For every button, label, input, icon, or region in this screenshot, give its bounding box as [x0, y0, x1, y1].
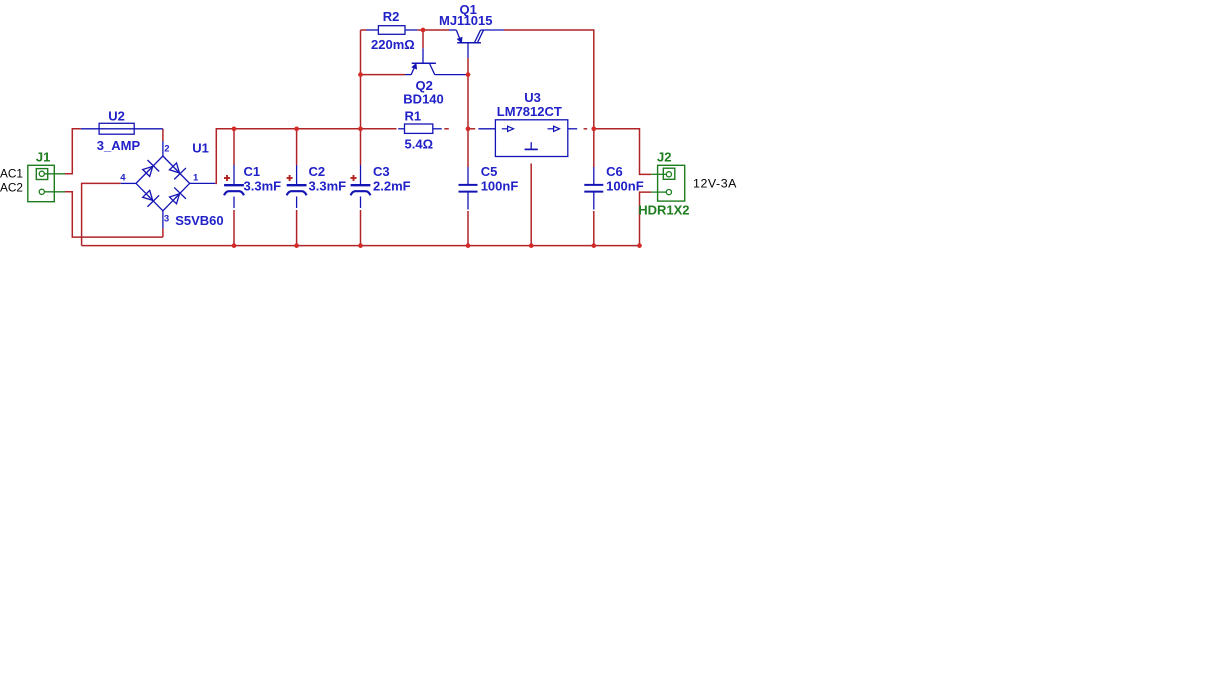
wire: mid rail C1 to R1 left pin: [234, 128, 397, 130]
svg-text:U2: U2: [108, 108, 125, 123]
label C5: [481, 164, 498, 179]
label Q2: [416, 78, 433, 93]
wire: top rail R2 right pin to Q1 emitter: [417, 29, 449, 31]
transistor Q2: [405, 48, 467, 75]
pin number 2 of U1: [164, 143, 169, 154]
svg-text:C6: C6: [606, 164, 623, 179]
svg-text:C2: C2: [309, 164, 326, 179]
svg-text:1: 1: [193, 173, 199, 184]
svg-text:AC2: AC2: [0, 180, 23, 194]
svg-text:3_AMP: 3_AMP: [97, 138, 141, 153]
value LM7812CT (U3): [497, 104, 562, 119]
svg-text:AC1: AC1: [0, 166, 23, 180]
value 100nF (C5): [481, 179, 519, 194]
diode D-topright of U1 (pin2 to pin1): [170, 163, 186, 179]
wire: C3 top stub: [360, 129, 362, 165]
label 12V-3A: [693, 177, 737, 191]
connector J2 (HDR1X2 output): [651, 165, 684, 201]
wire AC2: J1 pin2 to bridge pin3 (down then right): [65, 192, 163, 237]
junction dot 13 at (468,245.6): [466, 243, 471, 248]
wire: R1 right pin dash: [444, 128, 449, 130]
junction dot 11 at (296.6,245.6): [294, 243, 299, 248]
wire: J2 pin2 to ground rail: [640, 192, 652, 246]
svg-text:3.3mF: 3.3mF: [244, 179, 282, 194]
transistor Q1: [449, 30, 504, 58]
bridge rectifier U1 body: [121, 141, 216, 228]
svg-text:C5: C5: [481, 164, 498, 179]
wire: C5 top stub: [467, 129, 469, 167]
svg-text:220mΩ: 220mΩ: [371, 37, 415, 52]
capacitor C6: [584, 167, 603, 210]
capacitor C2: [287, 165, 307, 208]
label AC2: [0, 180, 23, 194]
wire: C6 top stub: [593, 129, 595, 167]
svg-text:S5VB60: S5VB60: [175, 213, 223, 228]
junction dot 7 at (360.5,128.8): [358, 126, 363, 131]
resistor R1: [398, 124, 442, 133]
junction dot 1 at (423,30): [421, 28, 426, 33]
svg-text:4: 4: [120, 173, 126, 184]
value 5.4&#937; (R1): [405, 136, 434, 151]
svg-text:U3: U3: [524, 90, 541, 105]
wire AC1: J1 pin1 to fuse U2 (up then right): [65, 129, 81, 174]
value 3.3mF (C1): [244, 179, 282, 194]
capacitor C1: [224, 165, 244, 208]
wire: C2 bottom stub: [296, 210, 298, 246]
svg-text:R1: R1: [405, 109, 422, 124]
plus sign of C1: [224, 175, 230, 181]
junction dot 2 at (360.5,74.6): [358, 72, 363, 77]
wire: Q2 collector node to mid rail (Q1 base riser): [467, 58, 469, 129]
wire: top rail right segment (Q1 collector to right riser): [504, 30, 594, 129]
junction dot 15 at (593.8,245.6): [591, 243, 596, 248]
label J2: [657, 149, 671, 164]
value BD140 (Q2): [403, 92, 443, 107]
value 3.3mF (C2): [309, 179, 347, 194]
junction dot 10 at (234,245.6): [232, 243, 237, 248]
label AC1: [0, 166, 23, 180]
voltage regulator U3: [478, 120, 577, 157]
svg-text:12V-3A: 12V-3A: [693, 177, 737, 191]
diode D-bottomright of U1 (pin3 to pin1): [170, 187, 186, 203]
label R2: [383, 9, 400, 24]
wire: Q2 base to top rail: [422, 30, 424, 48]
label J1: [36, 149, 50, 164]
junction dot 4 at (639.5,245.6): [637, 243, 642, 248]
value 220m&#937; (R2): [371, 37, 415, 52]
capacitor C5: [459, 167, 478, 210]
connector J1 (HDR1X2 input): [28, 165, 65, 201]
wire: mid rail dash left of U3: [470, 128, 475, 130]
junction dot 8 at (468,128.8): [466, 126, 471, 131]
label C2: [309, 164, 326, 179]
value 100nF (C6): [606, 179, 644, 194]
junction dot 5 at (234,128.8): [232, 126, 237, 131]
wire: bridge pin1 riser to mid rail: [215, 129, 234, 184]
value HDR1X2 (J2): [638, 202, 689, 217]
svg-text:HDR1X2: HDR1X2: [638, 202, 689, 217]
svg-text:MJ11015: MJ11015: [439, 13, 493, 28]
label Q1: [460, 2, 477, 17]
junction dot 14 at (531.2,245.6): [529, 243, 534, 248]
junction dot 3 at (468,74.6): [466, 72, 471, 77]
svg-text:C3: C3: [373, 164, 390, 179]
capacitor C3: [351, 165, 371, 208]
wire: mid rail dash right of U3: [584, 128, 588, 130]
value S5VB60: [175, 213, 223, 228]
svg-text:LM7812CT: LM7812CT: [497, 104, 562, 119]
svg-text:100nF: 100nF: [481, 179, 519, 194]
fuse U2: [81, 123, 163, 134]
wire: top rail stub left of R2: [361, 29, 367, 31]
svg-text:100nF: 100nF: [606, 179, 644, 194]
svg-text:BD140: BD140: [403, 92, 443, 107]
junction dot 6 at (296.6,128.8): [294, 126, 299, 131]
wire: C6 bottom stub: [593, 211, 595, 246]
wire: U3 ground pin to bottom rail: [530, 164, 532, 246]
diode D-topleft of U1 (pin4 to pin2): [143, 160, 159, 176]
junction dot 12 at (360.5,245.6): [358, 243, 363, 248]
svg-text:3: 3: [164, 213, 169, 224]
svg-text:R2: R2: [383, 9, 400, 24]
svg-text:5.4Ω: 5.4Ω: [405, 136, 434, 151]
label U1: [192, 140, 209, 155]
value MJ11015 (Q1): [439, 13, 493, 28]
wire: Q2 emitter wire: [361, 74, 406, 76]
pin number 3 of U1: [164, 213, 169, 224]
svg-text:2.2mF: 2.2mF: [373, 179, 411, 194]
pin number 1 of U1: [193, 173, 199, 184]
value 2.2mF (C3): [373, 179, 411, 194]
resistor R2: [367, 26, 418, 35]
wire: bridge pin4 to ground rail (left riser): [82, 183, 121, 245]
label C6: [606, 164, 623, 179]
wire: C2 top stub: [296, 129, 298, 165]
plus sign of C2: [287, 175, 293, 181]
wire: mid rail U3 output to J2 corner: [594, 129, 651, 175]
svg-text:J1: J1: [36, 149, 50, 164]
svg-text:J2: J2: [657, 149, 671, 164]
svg-text:U1: U1: [192, 140, 209, 155]
label U2: [108, 108, 125, 123]
wire: ground bottom rail: [82, 245, 640, 247]
diode D-bottomleft of U1 (pin4 to pin3): [143, 190, 159, 206]
label U3: [524, 90, 541, 105]
svg-text:2: 2: [164, 143, 169, 154]
label R1: [405, 109, 422, 124]
value 3_AMP: [97, 138, 141, 153]
plus sign of C3: [351, 175, 357, 181]
label C1: [244, 164, 261, 179]
wire: fuse U2 right to bridge pin2 (corner down): [162, 129, 164, 141]
junction dot 9 at (593.8,128.8): [591, 126, 596, 131]
wire: C1 top stub: [233, 129, 235, 165]
wire: C3 bottom stub: [360, 210, 362, 246]
pin number 4 of U1: [120, 173, 126, 184]
svg-text:3.3mF: 3.3mF: [309, 179, 347, 194]
wire: R2 loop left riser (to Q2 emitter node and C3 node): [360, 30, 362, 129]
wire: C5 bottom stub: [467, 211, 469, 246]
wire: C1 bottom stub: [233, 210, 235, 246]
svg-text:C1: C1: [244, 164, 261, 179]
label C3: [373, 164, 390, 179]
